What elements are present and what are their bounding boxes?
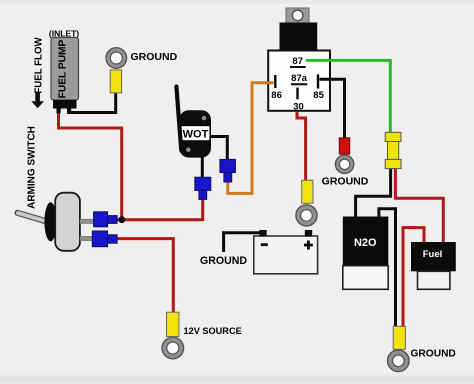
svg-text:GROUND: GROUND	[322, 176, 369, 188]
svg-text:GROUND: GROUND	[200, 255, 247, 267]
svg-text:85: 85	[313, 90, 324, 101]
svg-text:WOT: WOT	[183, 129, 209, 141]
svg-text:12V SOURCE: 12V SOURCE	[184, 326, 242, 336]
svg-text:GROUND: GROUND	[411, 349, 456, 360]
svg-text:87a: 87a	[291, 73, 308, 84]
svg-text:30: 30	[293, 101, 304, 112]
svg-text:N2O: N2O	[354, 237, 377, 249]
svg-text:FUEL PUMP: FUEL PUMP	[58, 39, 69, 98]
svg-text:FUEL FLOW: FUEL FLOW	[33, 36, 44, 93]
svg-text:GROUND: GROUND	[131, 51, 178, 63]
svg-text:87: 87	[292, 56, 303, 67]
svg-text:Fuel: Fuel	[423, 249, 443, 260]
svg-text:ARMING SWITCH: ARMING SWITCH	[26, 126, 37, 209]
svg-text:86: 86	[271, 90, 282, 101]
